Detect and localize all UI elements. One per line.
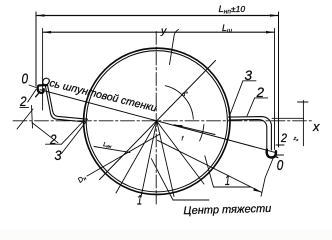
svg-text:1: 1 bbox=[137, 192, 142, 208]
pipe inner circle (wall thickness) bbox=[86, 51, 227, 192]
sheet pile wall axis line bbox=[40, 90, 277, 153]
svg-text:Центр тяжести: Центр тяжести bbox=[183, 203, 271, 217]
leader label 2 left lower to weld bbox=[62, 122, 83, 144]
radial line 60deg down-left bbox=[116, 121, 157, 193]
svg-text:x: x bbox=[312, 119, 320, 134]
dimension line Lnn±10 (top) bbox=[36, 15, 278, 17]
angle arc bbox=[165, 86, 193, 120]
small dimension tick bbox=[298, 101, 309, 103]
x axis (centerline) bbox=[13, 120, 313, 122]
shelf of centre of gravity leader bbox=[173, 199, 209, 201]
leader label 3 right bbox=[230, 81, 243, 115]
svg-text:0: 0 bbox=[22, 72, 29, 88]
extension line left outer bbox=[35, 12, 37, 86]
right plate top edge bbox=[229, 117, 272, 150]
svg-text:1: 1 bbox=[225, 172, 230, 188]
long shallow line to arrow bbox=[158, 140, 262, 192]
svg-text:3: 3 bbox=[55, 147, 62, 163]
svg-text:2: 2 bbox=[280, 133, 287, 145]
leader dash label 2 right lower bbox=[276, 144, 284, 146]
leader dash to hook bbox=[276, 154, 284, 156]
svg-text:Lнп±10: Lнп±10 bbox=[219, 4, 246, 16]
arrowhead left of dim 2 bbox=[43, 31, 52, 34]
left interlock hook bbox=[38, 85, 47, 93]
diagonal 42 deg line bbox=[100, 61, 216, 180]
arrowhead left of dim 1 bbox=[36, 14, 45, 17]
underline label 2 right upper bbox=[255, 97, 268, 99]
leader label 0 left bbox=[29, 85, 36, 88]
extension line left inner bbox=[42, 29, 44, 111]
arrowhead on shallow line bbox=[253, 188, 261, 192]
right hook tail bbox=[276, 157, 278, 158]
leader of label 2 left upper to hook bbox=[28, 89, 37, 102]
leader S2 to label 2 left lower bbox=[32, 123, 58, 143]
steep short line top bbox=[170, 30, 179, 65]
pipe outer circle (pos.1) bbox=[84, 48, 230, 194]
underline of label 2 left upper bbox=[20, 106, 29, 108]
y axis (centerline) bbox=[155, 32, 157, 205]
leader label 3 left bbox=[62, 123, 86, 154]
underline of label 2 left lower bbox=[46, 143, 62, 145]
radial line 80deg down-left (leader of pos.1 left) bbox=[141, 121, 157, 197]
leader with arrow toward centre bbox=[174, 125, 215, 135]
svg-text:0: 0 bbox=[277, 158, 284, 174]
dimension line Lsh (second) bbox=[43, 31, 275, 33]
svg-text:α°: α° bbox=[182, 92, 188, 98]
svg-text:2: 2 bbox=[19, 93, 27, 109]
plate top extension to small dim bbox=[272, 117, 304, 119]
svg-text:y: y bbox=[160, 25, 167, 37]
leader label 2 right upper bbox=[247, 98, 255, 116]
left hook tail bbox=[36, 93, 39, 97]
svg-text:3: 3 bbox=[245, 67, 253, 83]
leader of label 1 right bbox=[205, 156, 214, 187]
svg-text:2: 2 bbox=[49, 131, 57, 147]
svg-text:zx: zx bbox=[293, 136, 300, 142]
arrowhead right of dim 2 bbox=[266, 31, 275, 34]
right interlock hook bbox=[267, 150, 276, 158]
extension line right outer bbox=[278, 12, 280, 147]
underline of label 1 right bbox=[214, 186, 252, 188]
leader of centre of gravity bbox=[151, 159, 173, 200]
extension line right inner bbox=[274, 29, 276, 150]
left plate top edge and web inner bbox=[48, 85, 88, 119]
arrowhead right of dim 1 bbox=[270, 14, 279, 17]
angle arc between x axis and wall axis bbox=[200, 124, 204, 140]
short line under l-label bbox=[94, 147, 130, 153]
underline label 3 right bbox=[243, 80, 256, 82]
radial line 80deg down-right bbox=[157, 121, 174, 196]
chord line lower-left bbox=[87, 134, 160, 176]
radial line 53deg down-right bbox=[157, 121, 204, 184]
left plate bottom edge and web outer bbox=[45, 86, 86, 123]
right plate bottom edge bbox=[229, 120, 267, 151]
svg-text:2: 2 bbox=[256, 84, 265, 100]
vertical line below label 2 left upper bbox=[32, 106, 33, 129]
leader S1 bbox=[17, 109, 33, 129]
bent leader from hook down-left bbox=[261, 159, 273, 197]
small dimension vertical right bbox=[302, 101, 304, 146]
